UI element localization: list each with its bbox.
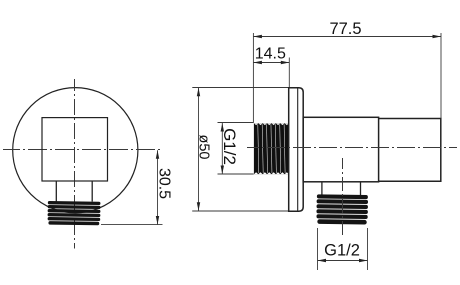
wall flange (side view) [289,88,304,211]
dimension 30.5: dimension line [157,150,159,224]
phi50 dimension: extension lines [192,87,288,89]
valve body (side view) [303,117,378,182]
outlet neck [321,182,323,195]
dimension 77.5: arrows [253,35,262,38]
svg-text:30.5: 30.5 [155,168,172,199]
inlet male thread (side view) [254,123,289,174]
G1/2 thread dimension: arrows [221,123,224,132]
square boss front outline [42,118,108,181]
threaded stub (front view) [47,201,100,225]
horizontal center line (side view) [247,147,457,149]
flange inner rim line [297,88,299,210]
phi50 dimension: dimension line [198,88,200,211]
dimension 30.5: extension line bottom [101,224,163,226]
dimension 77.5: dimension line [253,36,441,38]
phi50 dimension: arrows [197,88,200,97]
svg-text:14.5: 14.5 [255,45,286,62]
svg-text:G1/2: G1/2 [324,242,360,260]
svg-text:77.5: 77.5 [329,20,361,38]
extension line left (shared 77.5/14.5) [252,33,254,123]
outlet male thread (side view) [316,194,368,224]
svg-text:G1/2: G1/2 [220,128,239,165]
circle: valve body front outline [13,88,138,213]
vertical center line [74,79,76,249]
horizontal center line [3,149,163,151]
extension line right of 14.5 [288,58,290,88]
outlet vertical center line [342,158,344,235]
neck below square [55,181,57,202]
dimension 14.5: arrows [253,61,262,64]
G1/2 thread dimension: dimension line [221,123,223,174]
G1/2 thread dimension: extension lines [218,122,254,124]
outlet G1/2 dimension: arrows [318,259,327,262]
extension line right of 77.5 [440,33,442,118]
svg-text:ø50: ø50 [195,135,211,160]
dimension 14.5: dimension line [253,62,289,64]
outlet G1/2 dimension: extension lines [317,228,319,270]
cap / bonnet at right [379,119,441,182]
dimension 30.5: arrows [156,150,159,159]
outlet G1/2 dimension: dimension line [318,260,368,262]
